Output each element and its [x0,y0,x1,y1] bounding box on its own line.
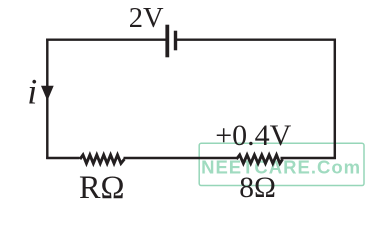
battery B1 short plate [174,31,177,51]
wire: top segment right of battery [177,38,336,40]
battery B1 long plate [165,25,169,58]
svg-text:RΩ: RΩ [79,169,125,205]
resistor R1 zigzag [80,155,124,164]
wire: right side [334,39,336,160]
current arrow on left wire [41,86,54,101]
wire: bottom segment right [281,157,336,159]
wire: bottom segment left [46,157,79,159]
svg-text:i: i [27,72,37,112]
wire: top segment left of battery [46,38,166,40]
resistor R2 zigzag [237,155,283,164]
wire: bottom segment middle [124,157,238,159]
svg-text:8Ω: 8Ω [239,172,276,204]
watermark box [199,143,364,185]
svg-text:2V: 2V [129,3,164,34]
wire: left side [46,39,48,160]
svg-text:+0.4V: +0.4V [215,119,291,152]
